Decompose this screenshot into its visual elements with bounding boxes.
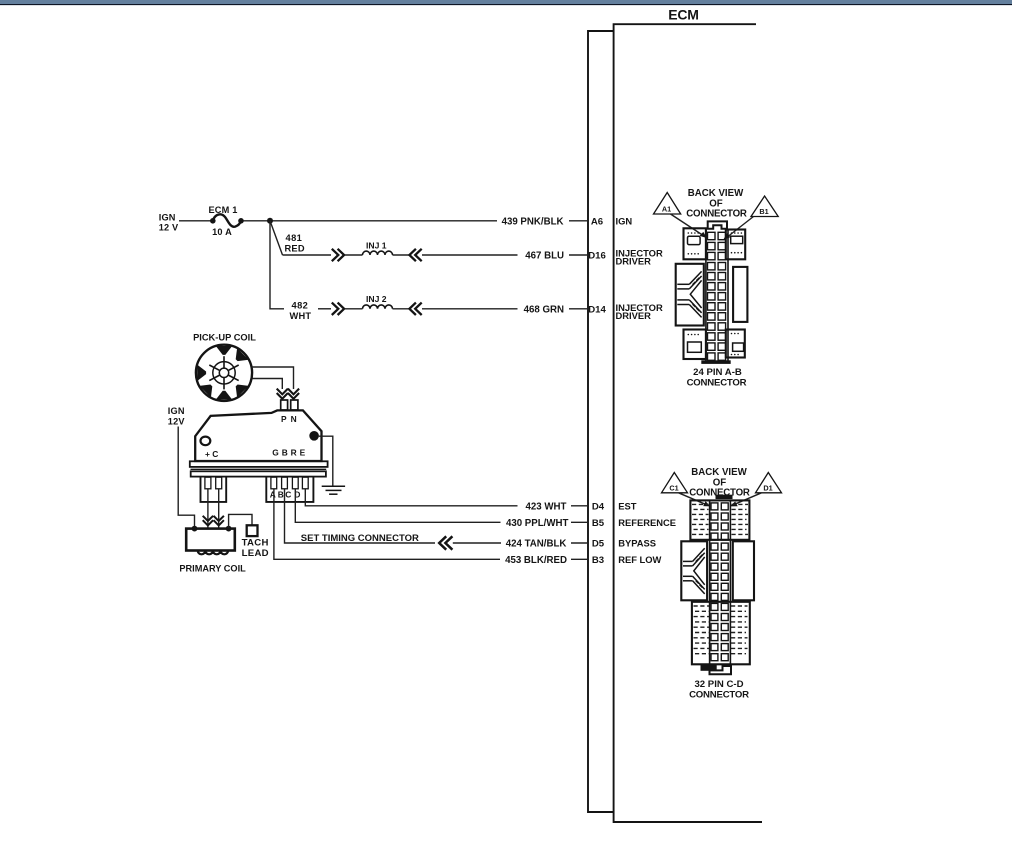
svg-text:CONNECTOR: CONNECTOR [686, 208, 747, 219]
svg-text:24 PIN A-B: 24 PIN A-B [693, 367, 742, 378]
wire bypass to ECM [453, 542, 501, 544]
svg-text:D4: D4 [592, 501, 605, 512]
svg-text:10 A: 10 A [212, 227, 232, 237]
label IGN 12V source left [159, 212, 179, 232]
CD connector mid-left block with key hatch [681, 541, 707, 600]
wire to INJ1 coil [345, 254, 363, 256]
svg-text:IGN: IGN [168, 406, 185, 416]
label 467 BLU [525, 251, 564, 262]
svg-text:A6: A6 [591, 216, 603, 227]
callout triangle D1 [756, 473, 782, 493]
svg-text:ECM: ECM [668, 6, 699, 22]
svg-text:D1: D1 [763, 484, 772, 493]
caption 24 PIN A-B CONNECTOR [687, 367, 747, 388]
svg-text:DRIVER: DRIVER [616, 256, 652, 267]
wire dash into ECM row D5 [571, 542, 588, 544]
svg-text:IGN: IGN [159, 212, 176, 222]
label P N on module [281, 414, 297, 424]
CD connector ladder rails [710, 500, 731, 663]
pin D14 [588, 304, 606, 315]
right connector shell (ABCD) [266, 477, 313, 502]
svg-text:P: P [281, 414, 287, 424]
title bar [0, 0, 1012, 7]
svg-text:LEAD: LEAD [242, 548, 269, 559]
pin C (left) [216, 477, 222, 489]
tach lead terminal square [247, 525, 258, 536]
wire INJ1 row left [283, 254, 332, 256]
svg-text:REF LOW: REF LOW [618, 554, 661, 565]
wire pick-up coil to P terminal [253, 379, 283, 390]
fuse ECM1 10A [208, 205, 243, 237]
svg-text:INJ 2: INJ 2 [366, 294, 387, 304]
left connector shell (+C) [201, 477, 227, 502]
CD connector pin ladder squares [711, 503, 728, 661]
wire pin B to bypass row [285, 489, 436, 543]
wire diagonal junction to INJ1 branch [270, 221, 283, 255]
svg-text:PRIMARY COIL: PRIMARY COIL [179, 563, 246, 573]
svg-text:B1: B1 [759, 207, 768, 216]
label EST [618, 500, 637, 511]
pin B [282, 477, 288, 489]
svg-text:423 WHT: 423 WHT [525, 501, 566, 512]
primary coil box [186, 529, 235, 555]
AB connector pin ladder squares [708, 232, 726, 360]
svg-text:C1: C1 [669, 484, 678, 493]
pointer B1 to connector [723, 217, 753, 240]
svg-text:12 V: 12 V [159, 223, 179, 233]
wire INJ1 to ECM [422, 254, 518, 256]
svg-text:32 PIN C-D: 32 PIN C-D [694, 679, 743, 690]
pin B5 [592, 518, 605, 529]
callout triangle C1 [662, 473, 688, 493]
injector INJ2 coil [363, 294, 393, 309]
pin A6 [591, 216, 603, 227]
pick-up coil symbol [196, 345, 252, 401]
svg-text:IGN: IGN [616, 215, 633, 226]
wire ground stud to ground [319, 436, 333, 485]
label BYPASS [618, 538, 656, 549]
svg-text:439 PNK/BLK: 439 PNK/BLK [502, 216, 564, 227]
CD connector top tab [716, 495, 733, 499]
injector INJ1 coil [363, 241, 393, 255]
svg-text:B5: B5 [592, 518, 605, 529]
label INJECTOR DRIVER row D16 [616, 247, 663, 266]
svg-text:D5: D5 [592, 539, 605, 550]
pin D4 [592, 501, 605, 512]
ground [322, 486, 345, 494]
connector chevron down on + wire [203, 516, 213, 526]
label IGN 12V at module [168, 406, 186, 427]
ECM outer box left edge + top/bottom [614, 24, 762, 822]
pin C2 [292, 477, 298, 489]
svg-text:+ C: + C [205, 449, 218, 459]
wire fuse to junction [244, 220, 498, 222]
svg-text:D16: D16 [588, 251, 606, 262]
AB connector bottom tab [701, 360, 730, 364]
wire pin C to ECM row B5 [295, 489, 500, 522]
svg-text:BYPASS: BYPASS [618, 538, 656, 549]
module mounting hole O [201, 437, 211, 446]
AB connector ladder rails [706, 229, 728, 361]
svg-text:DRIVER: DRIVER [616, 310, 652, 321]
svg-text:A: A [270, 490, 276, 500]
pin A [271, 477, 277, 489]
label SET TIMING CONNECTOR [301, 533, 419, 544]
svg-text:481: 481 [286, 233, 303, 243]
svg-text:468 GRN: 468 GRN [524, 304, 564, 315]
label 439 PNK/BLK [502, 216, 564, 227]
CD connector mid-right block [733, 541, 754, 600]
label REF LOW [618, 554, 661, 565]
wire dash into ECM row B5 [571, 521, 588, 523]
pin B3 [592, 555, 604, 566]
label + C on module [205, 449, 218, 459]
pointer C1 to connector [679, 493, 711, 507]
svg-text:TACH: TACH [242, 537, 269, 548]
CD connector bottom section with seal dashes [692, 602, 750, 665]
callout triangle A1 [654, 193, 681, 215]
wire IGN feed to fuse [179, 220, 211, 222]
label INJECTOR DRIVER row D14 [616, 302, 663, 321]
connector chevron right INJ2 [332, 303, 344, 315]
AB connector top-left block [684, 228, 706, 259]
label PRIMARY COIL [179, 563, 246, 573]
pin D16 [588, 251, 606, 262]
connector chevron down at P pin [277, 389, 288, 399]
wire pin D to ECM row D4 [305, 489, 517, 506]
connector chevron set timing [439, 536, 452, 549]
svg-text:EST: EST [618, 500, 637, 511]
ECM inner pin column rectangle [588, 31, 614, 812]
svg-text:C: C [285, 490, 291, 500]
svg-text:453 BLK/RED: 453 BLK/RED [505, 555, 567, 566]
labels A B C D [270, 490, 301, 500]
svg-text:B: B [278, 490, 284, 500]
wire dash into ECM row B3 [571, 558, 588, 560]
callout triangle B1 [751, 196, 778, 217]
label G B R E on module [272, 447, 308, 457]
label TACH LEAD [242, 537, 269, 559]
label 481 RED [285, 233, 305, 254]
pin D [302, 477, 308, 489]
module ground stud dot [309, 431, 319, 441]
wire vertical junction down to INJ2 branch [270, 223, 284, 309]
pin N on module top [291, 400, 298, 410]
wire + pin down to primary coil [207, 489, 209, 528]
wire from INJ2 coil [393, 308, 411, 310]
label 424 TAN/BLK [506, 539, 567, 550]
module mounting plate upper [190, 461, 328, 467]
svg-text:WHT: WHT [290, 311, 312, 321]
ECM label [668, 6, 699, 22]
connector chevron left INJ1 [409, 249, 421, 261]
svg-text:GBRE: GBRE [272, 447, 308, 457]
pin + (left) [205, 477, 211, 489]
pin D5 [592, 539, 605, 550]
AB connector top-right block [726, 230, 745, 260]
svg-text:PICK-UP COIL: PICK-UP COIL [193, 333, 256, 343]
label 468 GRN [524, 304, 564, 315]
svg-text:REFERENCE: REFERENCE [618, 517, 676, 528]
CD connector bottom tab [701, 664, 732, 674]
connector chevron down on C wire [214, 516, 224, 526]
pointer D1 to connector [730, 493, 762, 507]
AB connector bottom-right block [726, 330, 745, 358]
svg-text:430 PPL/WHT: 430 PPL/WHT [506, 518, 569, 529]
AB connector mid-left block with key hatch [676, 264, 704, 326]
AB connector mid-right block [733, 267, 747, 322]
module mounting plate lower [191, 471, 326, 476]
CD connector top section with seal dashes [690, 500, 749, 539]
label BACK VIEW OF CONNECTOR (A-B) [686, 188, 747, 219]
svg-text:ECM 1: ECM 1 [208, 205, 237, 215]
wire from INJ1 coil [393, 254, 411, 256]
label PICK-UP COIL [193, 333, 256, 343]
wire INJ2 to ECM [422, 308, 518, 310]
wire to INJ2 coil [345, 308, 363, 310]
caption 32 PIN C-D CONNECTOR [689, 679, 749, 700]
wire dash into ECM row D16 [569, 254, 588, 256]
pin P on module top [281, 400, 288, 410]
pointer A1 to connector [671, 214, 707, 238]
wire dash into ECM row D14 [569, 308, 588, 310]
wire pin A to ECM row B3 [274, 489, 500, 559]
label 482 WHT [290, 301, 312, 322]
label BACK VIEW OF CONNECTOR (C-D) [689, 467, 750, 498]
wire dash into ECM row D4 [571, 505, 588, 507]
wire C pin down to primary coil [218, 489, 220, 528]
svg-text:INJ 1: INJ 1 [366, 241, 387, 251]
ignition module body U1 [195, 410, 321, 461]
wire dash into ECM row A6 [569, 220, 588, 222]
connector chevron left INJ2 [409, 303, 421, 315]
svg-text:SET TIMING CONNECTOR: SET TIMING CONNECTOR [301, 533, 419, 544]
label IGN row A6 [616, 215, 633, 226]
label 453 BLK/RED [505, 555, 567, 566]
connector chevron down at N pin [288, 389, 299, 399]
svg-text:12V: 12V [168, 416, 186, 426]
svg-text:B3: B3 [592, 555, 604, 566]
svg-text:CONNECTOR: CONNECTOR [687, 378, 747, 389]
wire tach lead [229, 514, 252, 528]
svg-text:D14: D14 [588, 304, 606, 315]
label 423 WHT [525, 501, 566, 512]
svg-text:A1: A1 [662, 205, 671, 214]
node junction at fuse output [267, 218, 273, 224]
label 430 PPL/WHT [506, 518, 569, 529]
AB connector bottom-left block [684, 330, 706, 360]
svg-text:424 TAN/BLK: 424 TAN/BLK [506, 539, 567, 550]
connector chevron right INJ1 [332, 249, 344, 261]
wire INJ2 row left [318, 308, 331, 310]
wire pick-up coil to N terminal [252, 367, 294, 389]
node dot primary coil left [192, 526, 198, 532]
svg-text:N: N [291, 414, 297, 424]
module mounting plate mid line [191, 468, 327, 470]
svg-text:RED: RED [285, 243, 305, 253]
svg-text:467 BLU: 467 BLU [525, 251, 564, 262]
label REFERENCE [618, 517, 676, 528]
svg-text:CONNECTOR: CONNECTOR [689, 689, 749, 700]
svg-text:482: 482 [292, 301, 309, 311]
AB connector top tab [708, 221, 727, 228]
node dot primary coil right [226, 526, 232, 532]
wire IGN 12V to primary coil [178, 427, 194, 529]
